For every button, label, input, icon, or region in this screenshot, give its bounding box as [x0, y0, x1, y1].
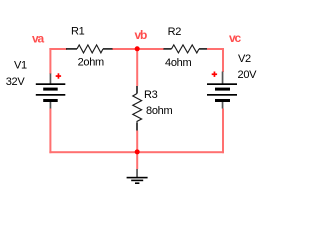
svg-text:4ohm: 4ohm	[165, 57, 191, 69]
svg-text:vc: vc	[229, 31, 241, 45]
wire R2 right to top-right corner	[207, 48, 224, 50]
wire R1 right to R2 left (through node vb)	[112, 48, 164, 50]
resistor R3	[133, 86, 142, 131]
resistor R1	[66, 45, 113, 53]
bottom junction dot	[135, 149, 140, 154]
battery V1	[36, 74, 66, 109]
wire right vertical lower (V2 to bottom wire)	[222, 109, 224, 154]
svg-text:V2: V2	[238, 53, 251, 65]
svg-text:vb: vb	[135, 28, 147, 42]
wire bottom junction to ground	[136, 153, 138, 169]
svg-text:V1: V1	[14, 60, 27, 72]
resistor R2	[164, 45, 208, 53]
svg-text:20V: 20V	[238, 69, 258, 81]
wire bottom horizontal	[49, 151, 224, 153]
ground symbol	[127, 177, 148, 184]
svg-text:R2: R2	[168, 26, 182, 38]
svg-text:R3: R3	[144, 89, 158, 101]
node vb junction dot	[135, 46, 140, 51]
wire right vertical upper (vc down to V2)	[222, 48, 224, 72]
svg-text:8ohm: 8ohm	[146, 105, 172, 117]
ground lead	[136, 169, 138, 177]
battery V2 plus sign	[212, 72, 217, 77]
battery V1 plus sign	[56, 73, 61, 78]
svg-text:R1: R1	[71, 26, 85, 38]
wire middle vertical lower (R3 to bottom junction)	[136, 131, 138, 153]
battery V2	[207, 72, 237, 109]
svg-text:32V: 32V	[6, 76, 26, 88]
wire top-left horizontal (va to R1)	[49, 48, 67, 50]
wire left vertical lower (V1 to bottom wire)	[49, 109, 51, 154]
svg-text:2ohm: 2ohm	[78, 57, 104, 69]
wire left vertical upper (va down to V1)	[49, 48, 51, 74]
wire middle vertical upper (vb to R3)	[136, 48, 138, 86]
svg-text:va: va	[32, 32, 44, 46]
